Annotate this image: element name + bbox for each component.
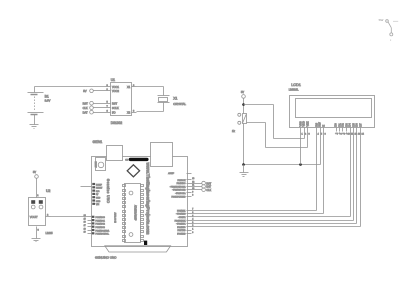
- svg-text:6: 6: [325, 134, 327, 136]
- switch SW1 (top right): [379, 18, 399, 42]
- terminal 5V (near U1): [83, 89, 105, 93]
- svg-text:AREF: AREF: [168, 172, 174, 175]
- svg-text:RST: RST: [83, 101, 89, 105]
- svg-text:SCLK: SCLK: [112, 106, 119, 110]
- svg-text:14: 14: [84, 215, 86, 217]
- terminal DAT (near Arduino): [192, 185, 212, 189]
- Arduino GEN1 board: [92, 140, 188, 247]
- svg-text:~PB1/OC1A: ~PB1/OC1A: [175, 192, 186, 195]
- analog input pins A0-A5: [88, 216, 110, 236]
- LCD1 LM016L: [289, 83, 375, 127]
- power jack: [151, 143, 173, 167]
- svg-text:VCC1: VCC1: [112, 85, 119, 89]
- svg-text:U2: U2: [46, 189, 50, 193]
- svg-text:U1: U1: [111, 78, 115, 82]
- svg-text:3: 3: [133, 110, 135, 112]
- svg-text:RESET: RESET: [96, 188, 103, 190]
- wire U1 X1 pin to crystal: [137, 87, 164, 96]
- wire LCD RS to Arduino PD7: [192, 132, 317, 211]
- svg-text:1: 1: [192, 229, 193, 231]
- power 5V terminal (above U2 LM35): [33, 171, 39, 198]
- svg-text:4: 4: [318, 134, 320, 136]
- svg-text:5V: 5V: [33, 171, 36, 174]
- svg-text:D2: D2: [341, 123, 345, 127]
- svg-text:ON: ON: [125, 160, 129, 162]
- svg-text:VEE: VEE: [305, 121, 309, 126]
- svg-text:VSS: VSS: [298, 121, 302, 126]
- svg-text:PC4/ADC4/SDA: PC4/ADC4/SDA: [96, 229, 110, 232]
- terminal CLK (near U1): [83, 106, 106, 110]
- svg-text:3V3: 3V3: [96, 191, 99, 193]
- wire LCD D7 to Arduino PD2: [192, 132, 361, 227]
- Arduino right pin numbers: [192, 178, 194, 234]
- ON led (dark pill): [125, 158, 148, 162]
- wire RV1 bottom to ground rail: [243, 124, 245, 165]
- wire U2 VOUT to Arduino A0: [51, 216, 88, 218]
- svg-text:8: 8: [341, 134, 343, 136]
- svg-text:2: 2: [305, 134, 307, 136]
- svg-text:GENUINO UNO: GENUINO UNO: [95, 255, 117, 259]
- svg-text:VOUT: VOUT: [30, 215, 38, 219]
- svg-text:ATMEGA328P: ATMEGA328P: [134, 205, 137, 221]
- svg-text:8: 8: [192, 195, 193, 197]
- svg-text:PB0/ICP1/CLKO: PB0/ICP1/CLKO: [172, 196, 187, 198]
- svg-text:D1: D1: [337, 123, 341, 127]
- reset button: [94, 158, 106, 171]
- svg-text:PD7/AIN1: PD7/AIN1: [177, 209, 185, 212]
- svg-text:~PD6/AIN0: ~PD6/AIN0: [176, 213, 186, 216]
- terminal RST (near U1): [83, 101, 106, 105]
- USB connector: [107, 146, 123, 161]
- svg-text:IOREF: IOREF: [96, 184, 103, 186]
- svg-text:19: 19: [84, 232, 86, 234]
- svg-text:5V: 5V: [83, 89, 87, 93]
- power header pins (left): [92, 183, 103, 206]
- svg-text:5V: 5V: [96, 194, 99, 196]
- svg-text:6: 6: [107, 110, 109, 112]
- svg-text:D0: D0: [334, 123, 338, 127]
- svg-text:DS1302: DS1302: [111, 121, 123, 125]
- wire LCD D5 to Arduino PD4: [192, 132, 354, 221]
- svg-text:X1: X1: [127, 85, 131, 89]
- svg-text:ANALOG IN: ANALOG IN: [114, 213, 117, 224]
- svg-text:13: 13: [192, 178, 194, 180]
- svg-text:RESET: RESET: [94, 162, 96, 169]
- svg-text:I/O: I/O: [112, 111, 115, 115]
- LCD pin stubs and labels: [298, 121, 364, 136]
- svg-text:E: E: [321, 125, 325, 127]
- terminal CLK (near Arduino): [192, 188, 212, 192]
- svg-text:PB4/MISO: PB4/MISO: [177, 183, 186, 185]
- svg-text:7: 7: [337, 134, 339, 136]
- svg-text:PC0/ADC0: PC0/ADC0: [96, 216, 105, 219]
- wire 5V to LCD VDD: [244, 105, 305, 139]
- svg-text:PC1/ADC1: PC1/ADC1: [96, 219, 105, 222]
- terminal RST (near Arduino): [192, 181, 212, 185]
- svg-text:1: 1: [37, 195, 39, 197]
- wire LCD D6 to Arduino PD3: [192, 132, 357, 224]
- power 5V terminal (above RV1): [241, 91, 245, 114]
- svg-text:5V: 5V: [241, 91, 244, 94]
- wire LCD E to Arduino PD6: [192, 132, 324, 214]
- svg-text:RW: RW: [318, 122, 322, 127]
- dark logo square: [144, 241, 147, 245]
- svg-text:D4: D4: [348, 123, 352, 127]
- svg-text:SW: SW: [379, 18, 384, 22]
- svg-text:VIN: VIN: [96, 204, 100, 206]
- ground rail: [244, 164, 321, 166]
- svg-text:DAT: DAT: [83, 110, 88, 114]
- svg-text:LCD1: LCD1: [291, 83, 301, 87]
- node junction (rail at RV1): [242, 163, 245, 166]
- svg-text:PD1/TXD: PD1/TXD: [178, 230, 187, 232]
- svg-text:PD4/T0/XCK: PD4/T0/XCK: [175, 220, 187, 222]
- svg-text:VCC2: VCC2: [112, 89, 119, 93]
- Arduino analog pin numbers: [84, 215, 86, 234]
- crystal X1: [158, 96, 187, 106]
- wire LCD D4 to Arduino PD5: [192, 132, 351, 217]
- svg-text:1k: 1k: [232, 129, 235, 133]
- svg-text:~PD5/T1: ~PD5/T1: [178, 217, 186, 219]
- svg-text:D7: D7: [358, 123, 362, 127]
- svg-text:CRYSTAL: CRYSTAL: [173, 102, 186, 106]
- svg-text:LM35: LM35: [46, 231, 53, 235]
- svg-text:15: 15: [84, 218, 86, 220]
- chip pin boxes: [123, 185, 144, 242]
- svg-text:X1: X1: [173, 96, 177, 100]
- svg-text:X2: X2: [127, 111, 131, 115]
- svg-text:PC3/ADC3: PC3/ADC3: [96, 226, 105, 229]
- svg-text:2: 2: [390, 40, 392, 42]
- svg-text:D6: D6: [355, 123, 359, 127]
- svg-text:1: 1: [302, 134, 304, 136]
- svg-text:~PB3/MOSI/OC2A: ~PB3/MOSI/OC2A: [170, 185, 186, 188]
- bottom trapezoid: [105, 246, 171, 252]
- wire RV1 wiper to LCD VEE: [247, 123, 308, 148]
- svg-text:14: 14: [362, 134, 365, 136]
- svg-text:12: 12: [192, 181, 194, 183]
- svg-text:CLK: CLK: [83, 106, 88, 110]
- svg-text:RST: RST: [112, 102, 118, 106]
- node junction (5V branch): [242, 103, 245, 106]
- svg-text:5: 5: [107, 101, 109, 103]
- wire LCD VSS to rail: [300, 132, 302, 165]
- svg-text:3.6V: 3.6V: [45, 99, 51, 103]
- svg-text:D5: D5: [351, 123, 355, 127]
- svg-text:9: 9: [192, 191, 193, 193]
- svg-text:RS: RS: [314, 123, 318, 127]
- ground (rail): [240, 165, 249, 177]
- svg-text:VDD: VDD: [302, 121, 306, 127]
- Arduino right-side pin labels: [168, 172, 186, 235]
- svg-text:3: 3: [309, 134, 311, 136]
- Arduino right-side pin stubs: [187, 174, 192, 234]
- svg-text:Genuino UNO: Genuino UNO: [106, 179, 110, 204]
- sensor U2 LM35: [29, 189, 53, 239]
- svg-text:GEN1: GEN1: [93, 140, 103, 144]
- wire battery to U1 VCC1: [35, 86, 106, 88]
- svg-text:PC5/ADC5/SCL: PC5/ADC5/SCL: [96, 233, 109, 236]
- ground (battery): [30, 125, 39, 129]
- Arduino logo diamond: [127, 165, 139, 177]
- IC U1 DS1302: [106, 78, 137, 125]
- svg-text:16: 16: [84, 222, 86, 224]
- ATmega328 chip: [125, 184, 141, 243]
- svg-text:PB5/SCK: PB5/SCK: [178, 180, 187, 182]
- svg-text:~PD3/INT1: ~PD3/INT1: [176, 224, 185, 226]
- wire stub at power header: [81, 186, 92, 188]
- svg-text:3: 3: [38, 230, 40, 232]
- node junction (rail at LCD VSS): [299, 163, 302, 166]
- svg-text:5: 5: [321, 134, 323, 136]
- svg-text:GND: GND: [96, 201, 101, 203]
- svg-text:LM016L: LM016L: [289, 88, 299, 92]
- unconnected pin marks D0-D3: [335, 132, 348, 134]
- svg-text:~PB2/SS/OC1B: ~PB2/SS/OC1B: [172, 190, 186, 192]
- svg-text:PD2/INT0: PD2/INT0: [177, 227, 185, 229]
- wire crystal to U1 X2 pin: [137, 103, 164, 112]
- terminal DAT (near U1): [83, 110, 106, 114]
- svg-text:PD0/RXD: PD0/RXD: [177, 234, 186, 236]
- wire LCD RW to rail: [320, 132, 322, 165]
- svg-text:18: 18: [84, 228, 86, 230]
- battery B1: [28, 87, 51, 125]
- svg-text:www.TheEngineeringProjects.com: www.TheEngineeringProjects.com: [146, 162, 151, 235]
- svg-text:0: 0: [192, 232, 193, 234]
- potentiometer RV1: [232, 113, 247, 133]
- svg-text:PC2/ADC2: PC2/ADC2: [96, 223, 105, 226]
- svg-text:9: 9: [344, 134, 346, 136]
- svg-text:17: 17: [84, 225, 86, 227]
- svg-text:D3: D3: [344, 123, 348, 127]
- ground (U2 LM35): [32, 239, 41, 242]
- svg-text:CLK: CLK: [206, 189, 211, 192]
- svg-text:GND: GND: [96, 198, 101, 200]
